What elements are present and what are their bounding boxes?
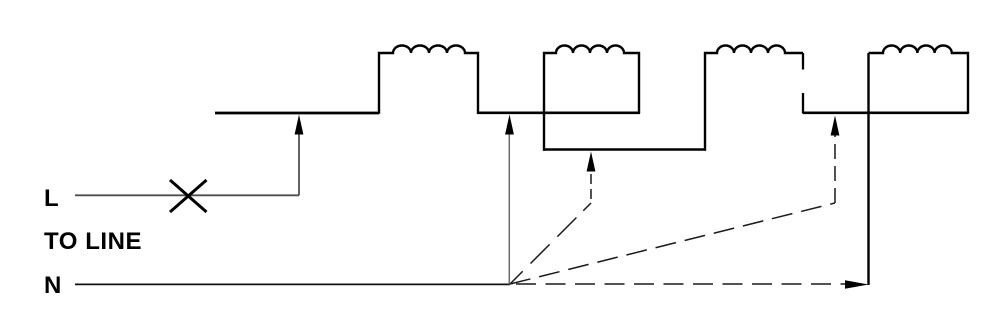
- arrowhead: dashed riser into bus C: [831, 116, 840, 136]
- wire: neutral conductor N: [75, 283, 510, 285]
- svg-text:TO LINE: TO LINE: [44, 228, 142, 255]
- inductor L3: [705, 46, 803, 151]
- wire: bus segment B: [477, 111, 640, 114]
- svg-text:N: N: [44, 272, 61, 299]
- wire: bottom bus (L2 output): [543, 148, 706, 151]
- switch X (crossed-out tap): [170, 180, 207, 212]
- arrowhead: dashed riser into bottom bus: [587, 152, 596, 172]
- arrowhead: N riser into bus B: [505, 115, 514, 135]
- wire: dashed riser to bottom bus: [590, 170, 592, 203]
- wire: top bus segment A (free left end): [215, 112, 379, 115]
- wire: dashed riser to bus C: [834, 134, 836, 203]
- wire: N riser to bus B: [508, 132, 510, 284]
- svg-text:L: L: [44, 185, 59, 212]
- wire: L4 left lead down to neutral junction: [867, 53, 869, 285]
- wire: dashed diagonal from N junction to L2 bottom bus: [510, 203, 591, 284]
- inductor L1: [379, 46, 478, 114]
- wire: line conductor L: [75, 194, 299, 196]
- inductor L2: [544, 46, 639, 151]
- arrowhead: dashed neutral into L4 lead (points right): [845, 280, 869, 289]
- wire: dashed neutral extension to L4 lead: [516, 283, 845, 285]
- wire: bus segment C: [803, 111, 968, 114]
- wire: dashed shallow diagonal from N junction toward bus C: [510, 203, 835, 284]
- wire: L tap riser: [298, 132, 300, 195]
- arrowhead: L tap into bus A: [295, 115, 304, 135]
- wire: dashed drop from L3 output to bus C: [802, 53, 804, 114]
- inductor L4: [869, 45, 969, 113]
